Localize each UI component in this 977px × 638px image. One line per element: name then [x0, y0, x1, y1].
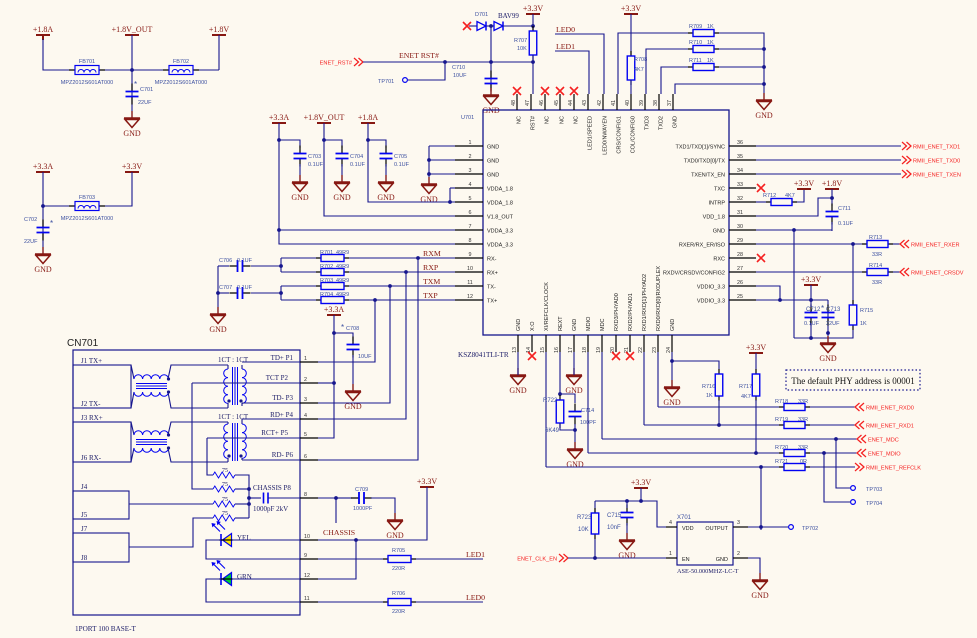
wire vddio gnd rail — [794, 337, 828, 339]
svg-text:10K: 10K — [578, 527, 589, 533]
svg-text:C703: C703 — [308, 154, 321, 160]
CN701 pin 9 — [300, 553, 318, 559]
svg-text:REXT: REXT — [558, 316, 564, 331]
pin 26 VDDIO_3.3 — [697, 280, 756, 291]
junction R711 gnd rail — [762, 65, 766, 69]
svg-text:ASE-50.000MHZ-LC-T: ASE-50.000MHZ-LC-T — [677, 568, 739, 575]
wire C709 to gnd — [371, 498, 395, 520]
svg-text:VDDIO_3.3: VDDIO_3.3 — [697, 299, 725, 305]
svg-text:*: * — [341, 323, 344, 332]
svg-text:RXD0/RXD[0]/RXDUPLEX: RXD0/RXD[0]/RXDUPLEX — [656, 266, 662, 331]
junction TXP to magnetics — [373, 298, 377, 302]
junction between diodes — [489, 24, 493, 28]
no-connect X on pin 28 RXC — [757, 254, 765, 262]
svg-text:NC: NC — [516, 116, 522, 124]
wire to TP703 — [836, 439, 850, 488]
junction OUTPUT node — [759, 525, 763, 529]
svg-text:R716: R716 — [702, 384, 715, 390]
svg-text:RXD1/RXD[1]/PHYAD2: RXD1/RXD[1]/PHYAD2 — [642, 274, 648, 331]
pin 27 RXDV/CRSDV/CONFIG2 — [663, 266, 756, 277]
wire R707 bottom — [532, 55, 534, 62]
svg-text:TP701: TP701 — [378, 79, 394, 85]
wire to C708 — [334, 333, 353, 341]
svg-text:1K: 1K — [707, 58, 714, 64]
wire RX primary bottom lead — [227, 458, 229, 462]
wire +3.3V to R717 — [755, 353, 757, 370]
svg-text:49R9: 49R9 — [336, 264, 349, 270]
wire TXEN to port — [756, 173, 901, 175]
wire ENET_CLK_EN to EN pin — [568, 557, 666, 559]
svg-text:GND: GND — [819, 354, 837, 363]
ferrite bead FB702 — [155, 59, 208, 86]
wire C712 bottom — [810, 323, 812, 338]
wire reset to pin 47 — [532, 62, 534, 94]
svg-text:J7: J7 — [81, 525, 88, 533]
wire to C709 — [336, 497, 352, 499]
ground for pin 13 — [509, 368, 527, 395]
svg-text:49R9: 49R9 — [336, 292, 349, 298]
wire FB701 to FB702 row — [105, 69, 219, 71]
wire pin19 mdc down — [601, 352, 603, 439]
junction pin4/pin5 — [448, 200, 452, 204]
svg-text:TXD1/TXD[1]/SYNC: TXD1/TXD[1]/SYNC — [675, 145, 725, 151]
wire +3.3A to pin 8 — [279, 123, 455, 244]
wire pin27 to R714 — [756, 271, 862, 273]
svg-text:6: 6 — [304, 454, 307, 460]
wire +3.3V vddio stub — [810, 285, 812, 300]
resistor 75 ohm 4 — [213, 515, 235, 521]
junction C710/diode branch — [489, 60, 493, 64]
svg-text:+3.3A: +3.3A — [33, 162, 54, 171]
wire rxd0 row — [658, 406, 779, 408]
wire GRN anode to pin 12 — [232, 578, 300, 580]
svg-text:26: 26 — [737, 280, 743, 286]
svg-text:GND: GND — [663, 398, 681, 407]
wire R717 to MDIO row — [755, 400, 757, 453]
wire R710 to gnd rail — [719, 48, 764, 50]
capacitor C706 — [230, 260, 251, 272]
capacitor C713 — [822, 305, 835, 326]
svg-text:0.1UF: 0.1UF — [237, 258, 253, 264]
svg-text:75: 75 — [222, 482, 228, 488]
pin 19 MDC — [596, 318, 606, 353]
power +3.3V at R708 — [621, 4, 642, 14]
svg-text:TXP: TXP — [423, 291, 438, 300]
junction TP704 drop — [822, 451, 826, 455]
junction vddio — [778, 298, 782, 302]
svg-text:VDDA_3.3: VDDA_3.3 — [487, 243, 513, 249]
test point TP704 — [851, 500, 883, 507]
svg-text:1: 1 — [469, 140, 472, 146]
svg-text:X:O: X:O — [530, 321, 536, 331]
junction C704 branch — [322, 138, 326, 142]
svg-text:TD+ P1: TD+ P1 — [271, 354, 294, 362]
port ENET_RST# — [320, 58, 363, 67]
wire choke TX top out — [168, 365, 228, 379]
connector CN701 box — [73, 350, 300, 615]
wire to C714 — [560, 394, 575, 403]
junction pin3 gnd — [427, 172, 431, 176]
svg-text:R723: R723 — [577, 515, 592, 521]
svg-text:R706: R706 — [392, 591, 405, 597]
wire +3.3V to FB703 — [105, 172, 132, 206]
junction 75 rail 2 — [247, 502, 251, 506]
capacitor C708 — [347, 337, 360, 358]
wire TXM left — [281, 285, 316, 287]
power +3.3A rail left — [269, 113, 290, 123]
wire pin15 refclk down — [545, 352, 547, 467]
wire RCT to 75 ohm 1 — [207, 438, 213, 475]
test point TP702 — [789, 525, 819, 532]
wire to R707 top — [532, 26, 534, 31]
pin 39 TXD3 — [639, 94, 650, 130]
transformer RX core — [233, 423, 238, 461]
resistor R717 — [752, 369, 760, 401]
svg-text:GND: GND — [565, 386, 583, 395]
transformer TX primary winding — [224, 369, 228, 403]
svg-text:GND: GND — [566, 460, 584, 469]
svg-text:R704: R704 — [320, 292, 333, 298]
wire gnd rail down — [763, 84, 765, 100]
pin 31 VDD_1.8 — [703, 210, 756, 221]
svg-text:GND: GND — [572, 319, 578, 331]
junction pin7 row — [277, 228, 281, 232]
capacitor C709 — [351, 492, 372, 504]
wire pin17 to gnd — [573, 352, 575, 375]
svg-text:VDD_1.8: VDD_1.8 — [703, 215, 725, 221]
svg-text:10K: 10K — [517, 46, 527, 52]
svg-text:R713: R713 — [869, 235, 882, 241]
pin 17 GND — [568, 319, 578, 353]
wire +3.3A rail to P5 — [318, 315, 334, 438]
wire R721 to port — [810, 466, 855, 468]
pin 24 GND — [666, 319, 676, 353]
svg-text:C712: C712 — [806, 307, 821, 313]
ground for oscillator — [751, 573, 769, 600]
svg-text:4: 4 — [304, 413, 307, 419]
svg-text:43: 43 — [582, 100, 588, 106]
junction diode cathode R707 — [531, 24, 535, 28]
svg-text:GND: GND — [713, 229, 725, 235]
wire refclk row — [546, 466, 779, 468]
ground for pin 17 — [565, 368, 583, 395]
junction +3.3A node — [41, 204, 45, 208]
svg-text:1K: 1K — [707, 24, 714, 30]
svg-text:R715: R715 — [860, 308, 873, 314]
resistor 75 ohm 3 — [213, 501, 235, 507]
wire TCT to 75 ohm 2 — [192, 383, 213, 489]
port RMII_ENET_TXD0 — [902, 156, 960, 165]
junction C707 tie — [279, 291, 283, 295]
svg-text:GND: GND — [516, 319, 522, 331]
resistor R722 — [556, 395, 564, 428]
junction C715 rail — [625, 499, 629, 503]
svg-text:ENET_RST#: ENET_RST# — [320, 61, 353, 67]
pin 36 TXD1/TXD[1]/SYNC — [675, 140, 756, 151]
wire pin1 gnd — [429, 145, 455, 147]
svg-text:EN: EN — [682, 557, 690, 563]
pin 44 NC — [568, 94, 579, 124]
wire +1.8V_OUT to pin 6 — [324, 123, 455, 216]
svg-text:0.1UF: 0.1UF — [804, 321, 820, 327]
svg-text:1CT : 1CT: 1CT : 1CT — [218, 356, 249, 364]
svg-text:VDDA_3.3: VDDA_3.3 — [487, 229, 513, 235]
svg-text:33R: 33R — [798, 417, 808, 423]
svg-text:1K: 1K — [860, 321, 867, 327]
CN701 pin 8 — [300, 492, 318, 498]
svg-text:1000pF 2kV: 1000pF 2kV — [253, 505, 288, 513]
wire +1.8V down — [218, 35, 220, 70]
resistor R703 — [316, 283, 349, 290]
resistor 75 ohm 1 — [213, 472, 235, 478]
svg-text:33R: 33R — [872, 252, 882, 258]
wire diode anode stub — [469, 25, 477, 27]
svg-text:+1.8A: +1.8A — [358, 113, 379, 122]
svg-text:MDIO: MDIO — [586, 316, 592, 331]
svg-text:+1.8V: +1.8V — [822, 179, 843, 188]
wire R711 to gnd rail — [719, 66, 764, 68]
diode D701 second half (BAV99) — [494, 22, 503, 31]
svg-text:48: 48 — [511, 100, 517, 106]
wire TXM-TXP tie — [280, 286, 282, 300]
svg-text:3: 3 — [304, 397, 307, 403]
svg-text:3: 3 — [469, 168, 472, 174]
ground for C705 — [377, 175, 395, 202]
CN701 pin 11 — [300, 596, 318, 602]
svg-text:11: 11 — [304, 596, 310, 602]
power +1.8V at C711 — [822, 179, 843, 189]
wire RXM to RD- P6 — [318, 258, 418, 460]
junction C706 tie — [279, 264, 283, 268]
wire TCT P2 row — [192, 382, 300, 384]
capacitor C714 — [569, 404, 582, 425]
svg-text:KSZ8041TLI-TR: KSZ8041TLI-TR — [458, 351, 509, 359]
svg-text:220R: 220R — [392, 566, 405, 572]
svg-text:8: 8 — [469, 238, 472, 244]
svg-text:35: 35 — [737, 154, 743, 160]
svg-text:41: 41 — [611, 100, 617, 106]
wire R705 to LED1 — [416, 558, 483, 560]
svg-text:1000PF: 1000PF — [353, 506, 373, 512]
svg-text:TX+: TX+ — [487, 299, 497, 305]
svg-text:XI/REFCLK/CLOCK: XI/REFCLK/CLOCK — [544, 282, 550, 331]
wire OUTPUT to TP702 — [748, 526, 788, 528]
svg-text:GND: GND — [377, 193, 395, 202]
wire choke RX top out — [168, 422, 228, 435]
svg-text:R714: R714 — [869, 263, 882, 269]
wire R719 to port — [810, 424, 855, 426]
svg-text:OUTPUT: OUTPUT — [705, 526, 728, 532]
wire pin29 to R713 — [756, 243, 862, 245]
resistor R708 — [627, 51, 635, 85]
wire cap to P8 — [268, 497, 300, 499]
svg-text:22UF: 22UF — [138, 100, 152, 106]
svg-text:45: 45 — [554, 100, 560, 106]
svg-text:0.1UF: 0.1UF — [350, 162, 366, 168]
wire RX primary top lead — [227, 422, 229, 424]
capacitor C705 — [380, 146, 393, 167]
svg-text:GND: GND — [291, 193, 309, 202]
svg-text:19: 19 — [596, 347, 602, 353]
wire pin10 to +3.3V — [318, 487, 427, 540]
junction TP703 drop — [834, 437, 838, 441]
svg-text:GND: GND — [487, 159, 499, 165]
pin 43 LED1/SPEED — [582, 94, 593, 150]
svg-text:1K: 1K — [706, 393, 713, 399]
wire to TP704 — [824, 453, 850, 502]
svg-text:11: 11 — [467, 280, 473, 286]
pin 46 NC — [539, 94, 550, 124]
pin 12 TX+ — [455, 294, 497, 305]
svg-text:C705: C705 — [394, 154, 407, 160]
svg-text:LED1: LED1 — [466, 550, 485, 559]
wire C715 to gnd — [626, 523, 628, 540]
svg-text:44: 44 — [568, 100, 574, 106]
svg-text:C704: C704 — [350, 154, 363, 160]
svg-text:RMII_ENET_REFCLK: RMII_ENET_REFCLK — [866, 466, 921, 472]
wire RXER to R715 — [852, 244, 854, 305]
power +1.8A — [33, 25, 54, 40]
svg-text:TP703: TP703 — [866, 487, 882, 493]
svg-text:R719: R719 — [775, 417, 788, 423]
svg-text:1K: 1K — [707, 40, 714, 46]
svg-text:+3.3V: +3.3V — [801, 275, 822, 284]
wire pin22 rxd1 down — [643, 352, 645, 425]
power +3.3V — [122, 162, 143, 172]
svg-text:GND: GND — [670, 319, 676, 331]
wire pin18 mdio down — [587, 352, 589, 453]
pin 1 GND — [455, 140, 499, 151]
svg-text:ENET_MDIO: ENET_MDIO — [868, 452, 901, 458]
svg-text:42: 42 — [597, 100, 603, 106]
svg-text:+1.8A: +1.8A — [33, 25, 54, 34]
svg-text:FB701: FB701 — [79, 59, 95, 65]
capacitor C701 — [126, 84, 139, 105]
junction +3.3V rail — [639, 499, 643, 503]
wire pin25 row — [756, 299, 828, 301]
pin 32 INTRP — [709, 196, 757, 207]
pin 4 VDDA_1.8 — [455, 182, 513, 193]
wire gnd bus pins 1-3 — [428, 146, 430, 184]
svg-text:VDDA_1.8: VDDA_1.8 — [487, 201, 513, 207]
svg-text:TXD2: TXD2 — [658, 116, 664, 130]
LED yellow — [212, 521, 234, 547]
test point TP701 — [378, 78, 407, 85]
svg-text:R702: R702 — [320, 264, 333, 270]
svg-text:*: * — [50, 219, 53, 228]
wire TXP to TD+ P1 — [318, 300, 375, 362]
wire R709 to gnd rail — [719, 33, 764, 84]
svg-text:3: 3 — [737, 520, 740, 526]
wire +1.8A to pin 5 — [368, 123, 455, 202]
wire node to C702 — [42, 206, 44, 254]
wire pin 37 to gnd rail — [675, 84, 764, 94]
svg-text:RMII_ENET_TXD0: RMII_ENET_TXD0 — [913, 159, 960, 165]
wire RX secondary bottom lead — [241, 458, 243, 460]
svg-text:C710: C710 — [452, 65, 465, 71]
resistor R702 — [316, 269, 349, 276]
resistor R714 — [862, 269, 893, 276]
no-connect X on top NC pin — [513, 87, 521, 95]
polarity dot choke TX bottom — [167, 390, 170, 393]
junction C713/R715 rail — [826, 331, 830, 335]
svg-text:R718: R718 — [775, 399, 788, 405]
port RMII_ENET_RXD0 — [855, 403, 914, 412]
svg-text:TP702: TP702 — [802, 526, 818, 532]
capacitor C711 — [826, 204, 839, 225]
wire pin9 to R705 — [318, 558, 383, 560]
svg-text:0.1UF: 0.1UF — [237, 285, 253, 291]
wire ENET_RST# net — [363, 61, 533, 63]
wire pin24 to gnd — [671, 352, 673, 387]
wire RXP to chip — [349, 271, 455, 273]
svg-text:RXM: RXM — [423, 249, 441, 258]
resistor R719 — [779, 422, 810, 429]
wire to R716 top — [672, 361, 719, 370]
wire C706/C707 gnd rail — [217, 266, 219, 314]
svg-text:FB703: FB703 — [79, 195, 95, 201]
transformer TX secondary winding — [242, 369, 246, 403]
svg-text:TP704: TP704 — [866, 501, 882, 507]
svg-text:GND: GND — [672, 116, 678, 128]
svg-text:R708: R708 — [634, 57, 647, 63]
svg-text:+1.8V_OUT: +1.8V_OUT — [112, 25, 153, 34]
choke coil TX bottom — [134, 392, 168, 396]
svg-text:12: 12 — [304, 573, 310, 579]
svg-text:22: 22 — [638, 347, 644, 353]
wire TXP to chip — [349, 299, 455, 301]
svg-text:47: 47 — [525, 100, 531, 106]
svg-text:RMII_ENET_RXER: RMII_ENET_RXER — [911, 243, 960, 249]
svg-text:0R: 0R — [800, 459, 807, 465]
svg-text:33: 33 — [737, 182, 743, 188]
svg-text:RMII_ENET_CRSDV: RMII_ENET_CRSDV — [911, 271, 964, 277]
svg-text:MPZ2012S601AT000: MPZ2012S601AT000 — [61, 80, 114, 86]
wire RXM-RXP tie — [280, 258, 282, 272]
svg-text:GND: GND — [716, 557, 728, 563]
wire R722 bottom rail — [560, 423, 575, 430]
svg-text:ENET_CLK_EN: ENET_CLK_EN — [517, 557, 557, 563]
svg-text:+3.3V: +3.3V — [122, 162, 143, 171]
wire mdc row — [602, 438, 857, 440]
wire J2 to choke — [131, 392, 134, 408]
wire pin 39 to R710 — [646, 49, 688, 94]
svg-text:10UF: 10UF — [453, 73, 467, 79]
svg-text:1: 1 — [304, 356, 307, 362]
ground for C710 — [482, 88, 500, 115]
junction TP701 branch — [443, 60, 447, 64]
svg-text:J1 TX+: J1 TX+ — [81, 357, 102, 365]
svg-text:+1.8V_OUT: +1.8V_OUT — [304, 113, 345, 122]
port ENET_MDC — [857, 435, 899, 444]
jack pins J3/J6 box — [73, 422, 131, 462]
polarity dot choke RX top — [167, 433, 170, 436]
power +3.3V VDDIO — [801, 275, 822, 285]
svg-text:RXC: RXC — [713, 257, 725, 263]
svg-text:75: 75 — [222, 468, 228, 474]
svg-text:X701: X701 — [677, 515, 692, 521]
pin 10 RX+ — [455, 266, 498, 277]
svg-text:LED0: LED0 — [556, 25, 575, 34]
transformer TX core — [233, 367, 238, 405]
svg-text:C706: C706 — [219, 258, 232, 264]
svg-text:CHASSIS: CHASSIS — [323, 528, 355, 537]
wire to gnd — [827, 333, 829, 343]
junction RXP to magnetics — [404, 270, 408, 274]
wire R720 to port — [810, 452, 857, 454]
svg-text:C702: C702 — [24, 217, 37, 223]
resistor R716 — [715, 369, 723, 401]
